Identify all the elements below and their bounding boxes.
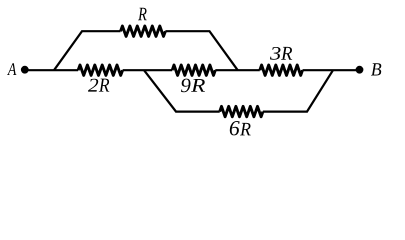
wire bottom branch right horizontal lead and diagonal up [263, 70, 333, 111]
resistor 6R [220, 106, 263, 116]
node B terminal dot [356, 66, 364, 74]
value label 6R [230, 121, 251, 135]
resistor 3R [260, 65, 303, 75]
label B [371, 63, 381, 75]
resistor 2R [78, 65, 123, 75]
label A [7, 63, 16, 75]
resistor R [121, 26, 166, 36]
value label R [138, 8, 147, 20]
wire top branch right horizontal lead and diagonal down [165, 31, 237, 70]
wire bottom branch left diagonal and horizontal lead [144, 70, 220, 111]
wire middle: node A to resistor 2R [25, 69, 78, 71]
resistor 9R [172, 65, 215, 75]
value label 9R [181, 79, 205, 93]
wire middle: resistor 2R to resistor 9R (junction to bottom branch at x=144) [123, 69, 173, 71]
wire middle: resistor 3R to node B (junction to bottom branch at x=333) [303, 69, 360, 71]
wire middle: resistor 9R to resistor 3R (junction to top branch at x=237.7) [215, 69, 259, 71]
node A terminal dot [21, 66, 29, 74]
value label 3R [270, 47, 292, 60]
wire top branch left diagonal and horizontal lead [54, 31, 121, 70]
value label 2R [88, 79, 109, 92]
